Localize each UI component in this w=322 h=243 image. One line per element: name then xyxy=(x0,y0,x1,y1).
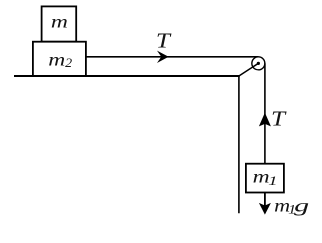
svg-text:T: T xyxy=(271,106,287,130)
svg-text:m: m xyxy=(51,11,68,31)
svg-text:g: g xyxy=(294,196,309,216)
svg-text:T: T xyxy=(156,29,172,53)
svg-text:2: 2 xyxy=(65,55,73,70)
svg-text:1: 1 xyxy=(268,174,278,188)
svg-text:m: m xyxy=(48,49,65,69)
